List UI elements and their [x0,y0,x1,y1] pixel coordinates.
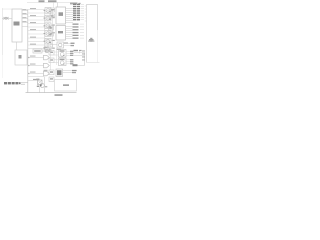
right harness text ra [74,50,79,51]
feeder drop wire 2 [53,3,55,9]
connector 3 top label [44,70,48,71]
top feed wire [3,8,13,10]
lamp L6 filament [47,48,49,50]
bus junction specks [28,57,29,74]
sensor box S1 [49,50,54,55]
gauge box G1 [59,50,67,58]
lamp L5 [46,39,50,43]
connector pentagon 1 [44,55,50,60]
lamp L3 mark [49,26,50,27]
harness label column group B [73,24,79,39]
sensor2 wire a [54,59,59,61]
fusible link F1 [4,17,9,20]
lamp feed wire r11 [28,44,45,46]
K3 label [50,27,53,28]
K2 label [51,15,54,16]
sensor box S2 [49,58,54,63]
lamp riser wire [44,10,46,49]
coil small box label [50,71,53,73]
center riser wire 2 [56,48,58,65]
U1 pin wire p2 [66,10,74,12]
G1 tag b [70,53,73,54]
frame top rule [27,2,78,4]
right tick [79,51,81,54]
engine box [55,80,77,92]
frame left border [2,8,4,55]
U2 pin wire q4 [66,32,73,34]
motor wire a [64,42,71,44]
motor wire b [64,45,71,47]
note arrow top text [44,47,48,48]
wire switch to starter [16,42,18,50]
connector pentagon 2 [44,63,50,68]
right col text 3 [82,56,85,57]
lamp L5 mark [49,42,50,43]
ignition coil box [56,69,63,77]
harness wire 3 label [30,72,36,73]
sensor wire b [54,54,59,56]
note arrow wire [42,50,47,52]
wire label w5 [30,37,36,38]
G1 pin wire b [66,52,70,54]
J1 right lower edge [97,30,99,63]
coil tag b [72,72,76,73]
coil tag a [72,70,77,71]
lamp L6 [46,47,50,51]
radio feed wire [28,79,38,81]
coil wire b [63,72,73,74]
mounting symbol [88,38,94,42]
G1 dial [60,52,64,56]
motor label [64,43,68,44]
motor symbol M [58,43,62,47]
feeder drop wire [57,3,59,8]
S1 label [50,52,53,53]
lamp L1 mark [49,11,50,12]
lamp feed wire r7 [28,30,45,32]
U1 pin wire p7 [66,20,74,22]
relay box K3 [49,26,54,30]
frame bottom rule [26,92,77,94]
title text 2 [48,0,57,2]
wire label w2 [30,15,36,16]
U1 pin wire p1 [66,8,74,10]
lamp feed wire r4 [28,19,45,21]
G2 dial [60,61,64,65]
wire label w1 [30,8,36,9]
control unit U2 [56,26,66,41]
lamp bus wire [52,9,54,47]
U2 pin wire q6 [66,36,73,38]
lamp feed wire r6 [28,26,45,28]
K4 label [50,33,53,34]
pin wire 4 [22,22,28,24]
S2 label [50,59,53,60]
relay box K1 [50,8,55,12]
lamp L6 mark [49,49,50,50]
G2 pin wire c [66,63,70,65]
motor supply wire [50,44,57,46]
motor sub text [57,49,62,50]
lamp L2 filament [47,17,49,19]
G2 tag b [70,61,73,62]
U2 pin wire q7 [66,38,73,40]
aux box lower left [49,77,54,82]
ground label dark [73,64,78,66]
accessory link wire [21,83,28,85]
blower motor box [57,42,64,48]
starter symbol [19,55,22,59]
J1 bottom edge [87,62,100,64]
lamp L1 box [45,8,51,14]
caption text [55,94,63,96]
G1 tag c [70,55,73,56]
lamp feed wire r8 [28,33,45,35]
lamp L1 [46,9,50,13]
G1 pin wire a [66,50,70,52]
coil wire a [63,70,73,72]
resistor box [48,44,53,48]
lamp L4 box [45,31,51,37]
center riser wire [50,48,52,70]
condenser mark [38,80,42,84]
pin wire 5 [22,26,28,28]
coil small box left [49,70,54,75]
right col text 1 [82,50,85,51]
lamp L4 [46,32,50,36]
lamp L3 [46,24,50,28]
title text [39,0,45,2]
buzzer feed wire [28,76,45,78]
harness wire 1 label [30,56,36,57]
U1 label [59,12,64,16]
right wire 2 [74,54,85,56]
U2 label [58,31,63,33]
U2 pin wire q5 [66,34,73,36]
pin label d [23,21,27,22]
lamp L3 filament [47,25,49,27]
U2 pin wire q2 [66,28,73,30]
lamp feed wire r2 [28,12,45,14]
aux box label [50,78,53,79]
cluster text 3 [45,86,48,87]
pin label c [23,17,27,18]
lamp L5 text [52,40,55,41]
wire label w6 [30,44,36,45]
title text 4 [79,3,81,4]
harness tick wires [80,4,84,38]
switch label [14,22,20,26]
buzzer circle [40,84,44,88]
right drop wire [84,52,86,65]
note arrowhead [46,49,50,52]
motor tag b [71,45,75,46]
harness wire 2 label [30,64,36,65]
lamp L2 [46,16,50,20]
U2 pin wire q3 [66,30,73,32]
lamp feed wire r5 [28,23,45,25]
control unit U1 [56,7,66,24]
G2 tag a [70,59,73,60]
harness wire 3 [28,73,44,75]
main bus wire [27,9,29,93]
right col text 4 [82,59,85,60]
right wire 1 [74,51,85,53]
cluster text [36,79,39,80]
lamp L4 text [52,32,55,33]
lamp feed wire r3 [28,16,45,18]
U1 pin wire p6 [66,18,74,20]
U1 pin wire p3 [66,12,74,14]
cluster left text [33,79,37,80]
G2 label [60,59,65,60]
lamp L5 filament [47,40,49,42]
cluster riser [44,77,46,93]
frame left lower [2,55,4,78]
G2 dial speck [63,64,64,65]
lamp feed wire r1 [28,9,45,11]
sensor wire a [54,51,59,53]
lamp L3 box [45,23,51,29]
G2 pin wire a [66,59,70,61]
pin wire 1 [22,10,28,12]
wire label w3 [30,22,36,23]
note text [34,50,41,52]
pin label b [23,13,27,14]
U1 pin wire p8 [66,22,74,24]
starter box M1 [15,50,27,65]
right harness text rb [79,50,82,51]
lamp L2 text [52,17,55,18]
K1 label [51,9,54,10]
relay box K4 [49,32,54,36]
lamp L2 mark [49,19,50,20]
lamp L6 text [52,48,55,49]
lamp feed wire r9 [28,37,45,39]
wire battery feed [2,17,12,19]
wire label w4 [30,29,36,30]
harness wire 1 [28,57,44,59]
U1 pin wire p4 [66,14,74,16]
ignition switch box SW1 [12,9,22,42]
motor tag a [71,43,75,44]
G2 pin wire b [66,61,70,63]
sensor2 wire b [54,62,59,64]
lamp feed wire r12 [28,48,45,50]
lamp L5 box [45,38,51,44]
gauge box G2 [59,58,67,66]
connector block J1 outline [87,5,98,63]
relay box K2 [50,14,55,18]
lamp L3 text [52,25,55,26]
lamp L4 mark [49,34,50,35]
G1 tag a [70,51,73,52]
coil label [57,70,62,75]
pin wire 2 [22,14,28,16]
cluster text 2 [37,86,39,87]
lamp feed wire r10 [28,41,45,43]
condenser box [38,80,43,85]
lamp L2 box [45,15,51,21]
J1 pin stubs [85,6,87,21]
U2 pin wire q1 [66,26,73,28]
title text 3 [70,3,77,5]
harness wire 2 [28,65,44,67]
G1 label [60,50,65,51]
buzzer dot [40,85,42,87]
junction specks [44,10,45,50]
pin label a [23,9,27,10]
pin wire 3 [22,18,28,20]
right col text 2 [82,53,85,54]
condenser ground wire [39,85,41,93]
lamp L1 filament [47,9,49,11]
lamp L4 filament [47,32,49,34]
note box N1 [33,49,42,53]
lamp L6 box [45,46,51,52]
connector pentagon 3 [44,71,50,76]
right bottom wire [74,65,85,67]
G2 tag c [70,63,73,64]
G1 pin wire c [66,54,70,56]
accessory dark label strip [4,82,21,84]
harness label column group A [73,4,80,21]
engine label [63,84,69,86]
G1 dial speck [63,55,64,56]
U1 pin wire p5 [66,16,74,18]
lamp L1 text [52,9,55,10]
